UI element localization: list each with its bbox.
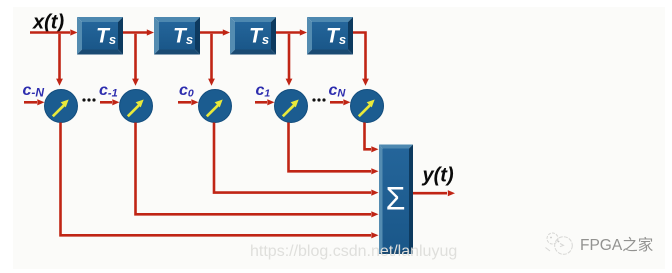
wire tap to M1 (58, 34, 61, 80)
wire Ts4 output to tap (353, 33, 366, 80)
dots between M1 and M2 (82, 98, 85, 101)
wire coefficient cN input (330, 101, 343, 104)
summer block U1 (379, 145, 413, 255)
wire M3 to summer (214, 123, 371, 193)
wire M1 to summer (61, 123, 372, 236)
multiplier M5 (351, 90, 384, 123)
wire coefficient c0 input (178, 101, 191, 104)
wire coefficient c-N input (24, 101, 37, 104)
wire coefficient c-1 input (100, 101, 112, 104)
wire Ts1 to Ts2 (123, 31, 147, 34)
wire summer output (413, 192, 447, 195)
svg-text:Σ: Σ (386, 181, 406, 217)
wire Ts3 to Ts4 (276, 31, 300, 34)
wire tap to M2 (134, 34, 137, 80)
multiplier M3 (199, 90, 232, 123)
multiplier M4 (275, 90, 308, 123)
wire tap to M3 (210, 34, 213, 80)
delay block Ts4 (307, 17, 353, 55)
delay block Ts1 (77, 17, 123, 55)
svg-text:https://blog.csdn.net/lanluyug: https://blog.csdn.net/lanluyug (250, 243, 457, 260)
wire M2 to summer (136, 123, 372, 215)
wire input to Ts1 (30, 31, 70, 34)
wire M4 to summer (289, 123, 372, 172)
dots between M4 and M5 (312, 98, 315, 101)
delay block Ts2 (154, 17, 200, 55)
svg-text:FPGA之家: FPGA之家 (580, 236, 653, 254)
delay block Ts3 (230, 17, 276, 55)
svg-text:x(t): x(t) (32, 12, 64, 34)
wire tap to M4 (288, 34, 291, 80)
multiplier M1 (45, 90, 78, 123)
svg-text:y(t): y(t) (422, 165, 454, 187)
logo bird icon (546, 233, 573, 254)
svg-text:c-N: c-N (23, 82, 45, 99)
multiplier M2 (120, 90, 153, 123)
wire coefficient c1 input (255, 101, 267, 104)
wire Ts2 to Ts3 (200, 31, 223, 34)
wire M5 to summer (365, 123, 372, 150)
